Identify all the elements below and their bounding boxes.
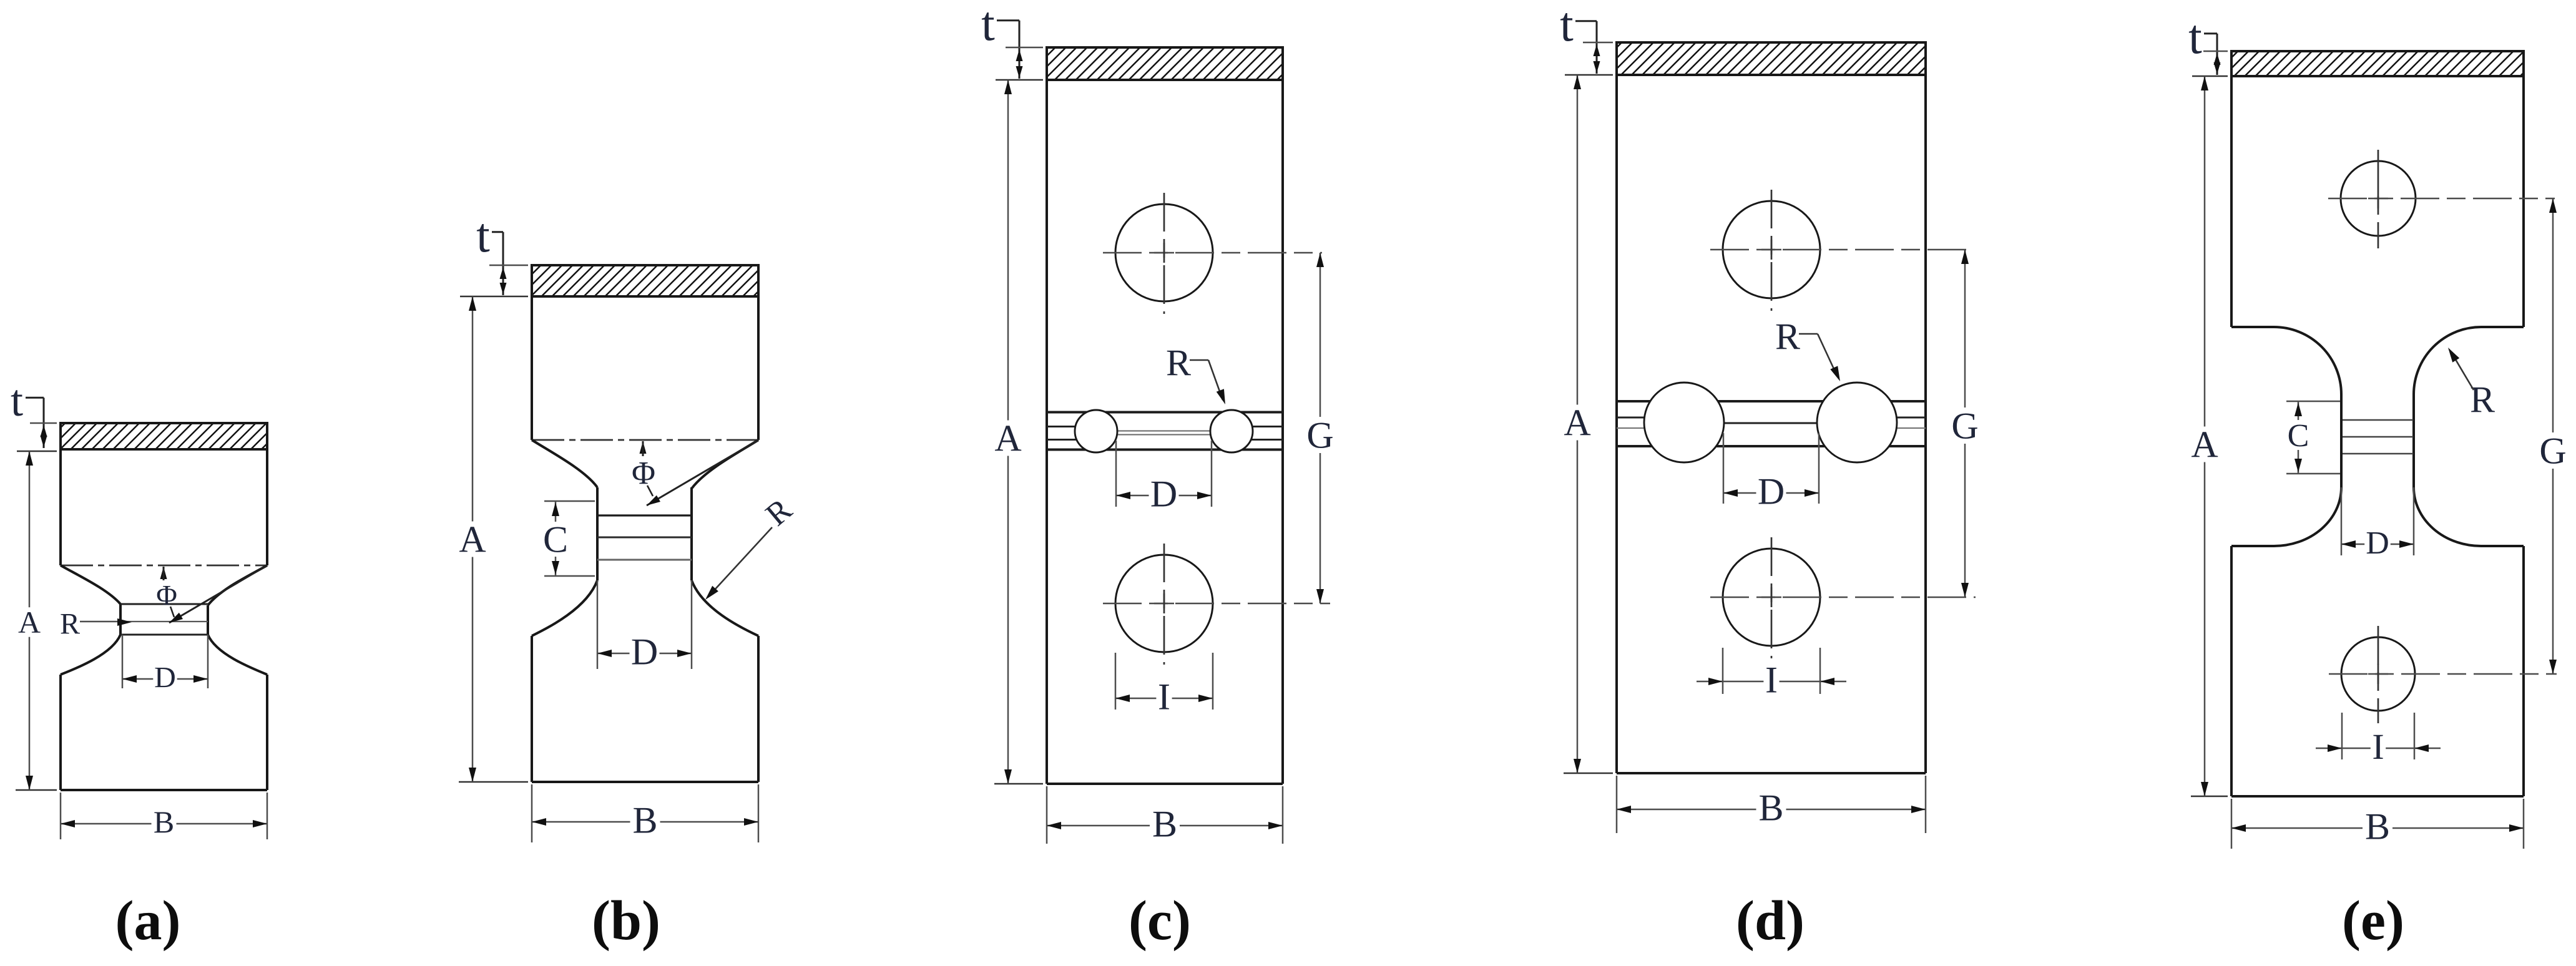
svg-text:C: C <box>2288 418 2309 454</box>
svg-text:D: D <box>2366 525 2389 561</box>
svg-text:A: A <box>18 605 41 640</box>
svg-text:B: B <box>1152 804 1177 845</box>
svg-text:R: R <box>2470 379 2495 421</box>
svg-text:I: I <box>1765 660 1778 701</box>
svg-text:C: C <box>543 519 568 560</box>
svg-text:R: R <box>60 608 80 641</box>
svg-text:I: I <box>1158 676 1170 718</box>
svg-text:A: A <box>1564 402 1590 444</box>
svg-text:B: B <box>1758 788 1783 829</box>
svg-text:(a): (a) <box>115 890 181 952</box>
svg-text:Φ: Φ <box>156 579 177 611</box>
svg-text:Φ: Φ <box>632 456 655 491</box>
svg-text:R: R <box>1166 343 1191 384</box>
svg-text:D: D <box>1758 471 1785 512</box>
svg-text:t: t <box>476 208 490 262</box>
svg-text:(d): (d) <box>1736 890 1805 952</box>
svg-text:R: R <box>1775 316 1800 358</box>
svg-text:A: A <box>994 418 1021 459</box>
svg-text:B: B <box>154 804 174 839</box>
svg-text:t: t <box>2188 9 2202 64</box>
svg-text:G: G <box>2539 431 2566 472</box>
svg-text:G: G <box>1951 406 1978 447</box>
svg-text:(b): (b) <box>592 890 660 952</box>
svg-text:D: D <box>631 632 658 673</box>
svg-text:D: D <box>1150 474 1177 515</box>
svg-text:B: B <box>632 800 657 841</box>
svg-text:A: A <box>2191 424 2218 466</box>
svg-text:t: t <box>1560 0 1574 51</box>
svg-text:t: t <box>981 0 995 51</box>
svg-text:A: A <box>459 519 486 560</box>
svg-text:G: G <box>1306 415 1333 456</box>
svg-text:B: B <box>2365 806 2390 847</box>
svg-text:t: t <box>11 376 23 426</box>
svg-text:I: I <box>2372 726 2384 767</box>
svg-text:(e): (e) <box>2342 890 2404 952</box>
svg-text:(c): (c) <box>1129 890 1191 952</box>
svg-text:D: D <box>154 661 176 695</box>
